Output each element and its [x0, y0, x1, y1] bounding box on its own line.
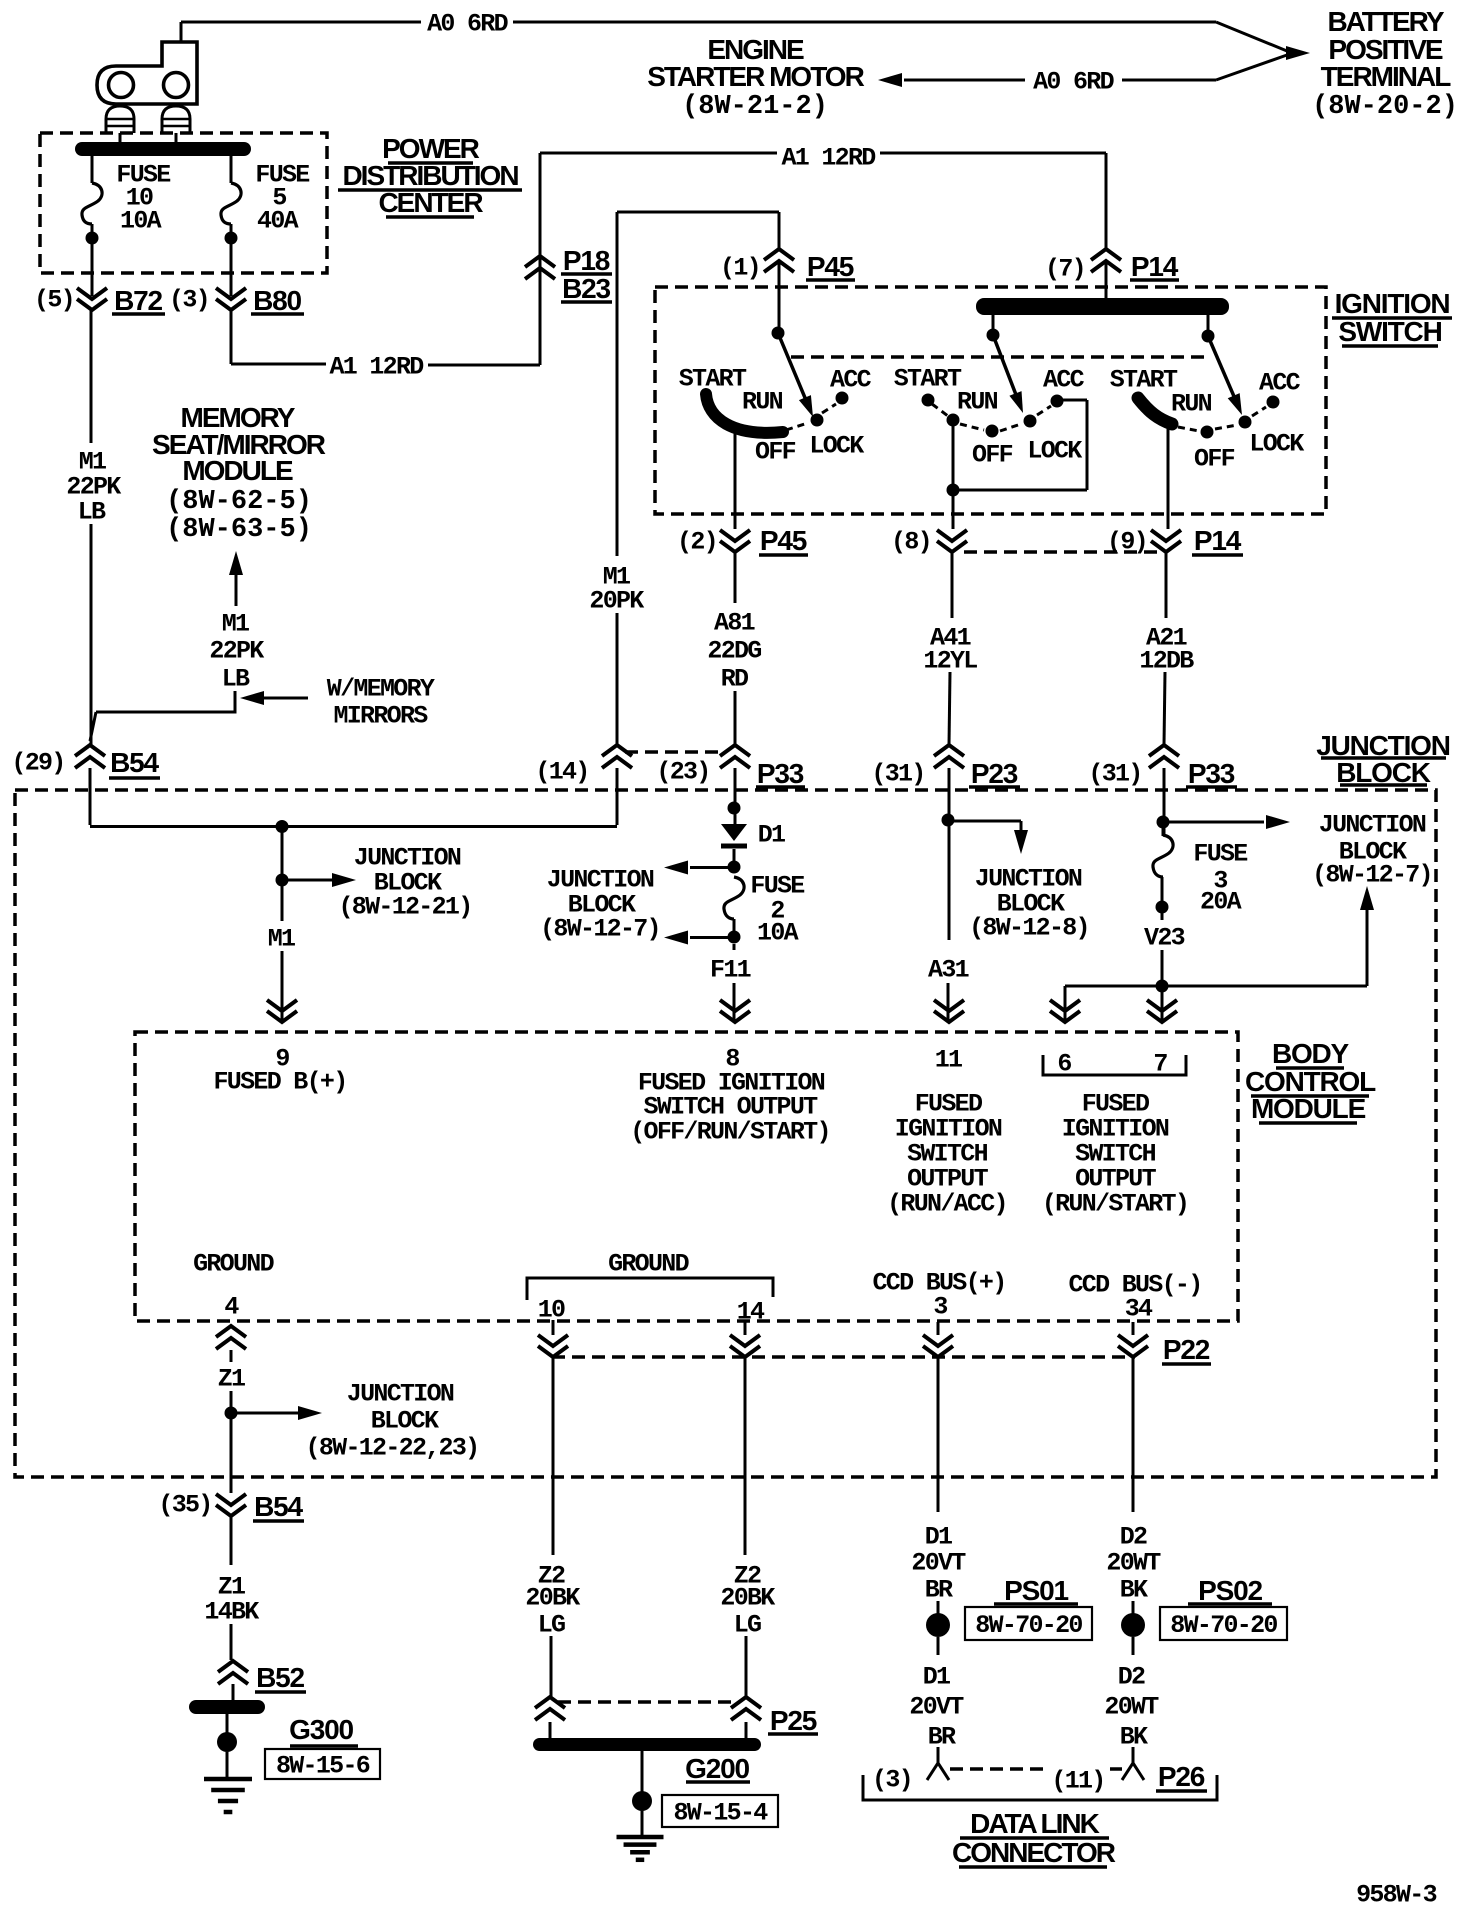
svg-text:ACC: ACC [830, 366, 872, 395]
svg-text:MODULE: MODULE [182, 455, 293, 486]
svg-text:11: 11 [935, 1046, 962, 1075]
svg-text:JUNCTION: JUNCTION [347, 1380, 454, 1409]
svg-text:LG: LG [538, 1611, 565, 1640]
svg-text:(29): (29) [11, 749, 64, 778]
svg-text:34: 34 [1125, 1295, 1153, 1324]
svg-text:P33: P33 [757, 758, 804, 789]
svg-text:(8W-12-7): (8W-12-7) [540, 915, 660, 944]
svg-text:LOCK: LOCK [809, 432, 864, 461]
svg-text:A31: A31 [928, 956, 969, 985]
svg-text:START: START [679, 365, 747, 394]
svg-text:START: START [894, 365, 962, 394]
svg-text:P45: P45 [807, 251, 854, 282]
svg-text:M1: M1 [222, 610, 249, 639]
svg-text:JUNCTION: JUNCTION [1319, 811, 1426, 840]
svg-text:P25: P25 [770, 1705, 817, 1736]
svg-text:(35): (35) [158, 1491, 211, 1520]
svg-text:8W-15-4: 8W-15-4 [673, 1799, 768, 1828]
svg-text:40A: 40A [257, 207, 299, 236]
svg-text:OFF: OFF [755, 438, 796, 467]
svg-text:(3): (3) [169, 286, 209, 315]
svg-text:B52: B52 [256, 1662, 304, 1693]
svg-text:MIRRORS: MIRRORS [333, 702, 428, 731]
svg-text:(9): (9) [1107, 528, 1147, 557]
svg-text:BR: BR [928, 1723, 956, 1752]
svg-text:G300: G300 [289, 1714, 353, 1745]
svg-text:A81: A81 [714, 609, 755, 638]
svg-text:(8W-20-2): (8W-20-2) [1312, 92, 1458, 122]
svg-text:(31): (31) [871, 760, 924, 789]
svg-text:22DG: 22DG [707, 637, 761, 666]
svg-text:B54: B54 [110, 747, 159, 778]
svg-text:TERMINAL: TERMINAL [1321, 61, 1452, 92]
svg-text:20BK: 20BK [525, 1584, 580, 1613]
svg-text:GROUND: GROUND [608, 1250, 690, 1279]
svg-text:B72: B72 [114, 285, 162, 316]
svg-text:ACC: ACC [1259, 369, 1301, 398]
svg-text:(5): (5) [34, 286, 74, 315]
svg-text:LB: LB [78, 498, 106, 527]
svg-text:8W-70-20: 8W-70-20 [1170, 1611, 1277, 1640]
svg-text:P14: P14 [1194, 525, 1242, 556]
svg-text:STARTER MOTOR: STARTER MOTOR [647, 61, 864, 92]
svg-text:(14): (14) [535, 758, 588, 787]
svg-text:BATTERY: BATTERY [1327, 6, 1444, 37]
svg-text:MODULE: MODULE [1251, 1093, 1366, 1124]
svg-text:D2: D2 [1120, 1523, 1147, 1552]
svg-text:IGNITION: IGNITION [1335, 288, 1450, 319]
svg-text:G200: G200 [685, 1753, 749, 1784]
svg-text:F11: F11 [710, 956, 751, 985]
svg-text:8W-70-20: 8W-70-20 [975, 1611, 1082, 1640]
svg-text:BK: BK [1120, 1576, 1148, 1605]
svg-text:P45: P45 [760, 525, 807, 556]
svg-text:RUN: RUN [742, 388, 783, 417]
svg-text:P33: P33 [1188, 758, 1235, 789]
svg-text:12DB: 12DB [1139, 647, 1194, 676]
svg-text:PS01: PS01 [1004, 1575, 1068, 1606]
svg-text:LG: LG [734, 1611, 761, 1640]
svg-text:GROUND: GROUND [193, 1250, 275, 1279]
svg-text:(OFF/RUN/START): (OFF/RUN/START) [630, 1118, 830, 1147]
svg-text:12YL: 12YL [923, 647, 977, 676]
svg-text:(8W-21-2): (8W-21-2) [682, 92, 828, 122]
svg-text:PS02: PS02 [1198, 1575, 1262, 1606]
svg-text:4: 4 [224, 1293, 239, 1322]
svg-text:(11): (11) [1051, 1767, 1104, 1796]
svg-text:P26: P26 [1158, 1761, 1205, 1792]
svg-text:958W-3: 958W-3 [1356, 1881, 1437, 1906]
svg-text:20VT: 20VT [909, 1693, 964, 1722]
svg-text:(RUN/START): (RUN/START) [1042, 1190, 1188, 1219]
svg-text:Z1: Z1 [218, 1365, 245, 1394]
svg-text:(7): (7) [1045, 255, 1085, 284]
svg-text:(23): (23) [656, 758, 709, 787]
svg-text:M1: M1 [268, 925, 295, 954]
svg-text:P22: P22 [1163, 1334, 1210, 1365]
svg-text:V23: V23 [1144, 924, 1185, 953]
svg-text:LOCK: LOCK [1249, 430, 1304, 459]
svg-text:8W-15-6: 8W-15-6 [276, 1752, 370, 1781]
svg-text:P14: P14 [1131, 251, 1179, 282]
svg-text:RUN: RUN [957, 388, 998, 417]
svg-text:10A: 10A [757, 919, 799, 948]
svg-text:D1: D1 [758, 821, 785, 850]
svg-text:3: 3 [933, 1293, 947, 1322]
svg-text:W/MEMORY: W/MEMORY [327, 675, 435, 704]
svg-text:A0 6RD: A0 6RD [1033, 68, 1115, 97]
svg-text:(3): (3) [872, 1766, 912, 1795]
svg-text:B23: B23 [562, 273, 610, 304]
svg-text:A1 12RD: A1 12RD [781, 144, 876, 173]
svg-text:OFF: OFF [1194, 445, 1235, 474]
svg-text:FUSED B(+): FUSED B(+) [213, 1068, 346, 1097]
svg-text:(8W-12-8): (8W-12-8) [969, 914, 1089, 943]
svg-text:OFF: OFF [972, 441, 1013, 470]
svg-text:P23: P23 [971, 758, 1018, 789]
svg-text:BR: BR [925, 1576, 953, 1605]
svg-text:20A: 20A [1200, 888, 1242, 917]
svg-text:20BK: 20BK [720, 1584, 775, 1613]
svg-text:(8W-12-7): (8W-12-7) [1312, 861, 1432, 890]
svg-text:RD: RD [721, 665, 749, 694]
svg-text:LOCK: LOCK [1027, 437, 1082, 466]
svg-text:B54: B54 [254, 1491, 303, 1522]
svg-text:20WT: 20WT [1104, 1693, 1159, 1722]
svg-text:10A: 10A [120, 207, 162, 236]
svg-text:RUN: RUN [1171, 390, 1212, 419]
svg-text:FUSE: FUSE [1193, 840, 1247, 869]
svg-text:20VT: 20VT [911, 1549, 966, 1578]
svg-text:(8W-62-5): (8W-62-5) [166, 487, 312, 517]
svg-text:P18: P18 [563, 245, 610, 276]
svg-text:(31): (31) [1088, 760, 1141, 789]
svg-text:ACC: ACC [1043, 366, 1085, 395]
svg-text:SWITCH: SWITCH [1338, 316, 1441, 347]
svg-text:14BK: 14BK [204, 1598, 259, 1627]
svg-text:(8W-12-21): (8W-12-21) [338, 893, 471, 922]
svg-text:20WT: 20WT [1106, 1549, 1161, 1578]
svg-text:CENTER: CENTER [378, 187, 483, 218]
svg-text:B80: B80 [253, 285, 301, 316]
svg-text:(1): (1) [720, 254, 760, 283]
svg-text:(8): (8) [891, 528, 931, 557]
svg-text:(8W-12-22,23): (8W-12-22,23) [306, 1434, 479, 1463]
svg-text:START: START [1110, 366, 1178, 395]
svg-text:(8W-63-5): (8W-63-5) [166, 515, 312, 545]
svg-text:(2): (2) [677, 528, 717, 557]
svg-text:22PK: 22PK [209, 637, 264, 666]
svg-text:A1 12RD: A1 12RD [329, 353, 424, 382]
svg-text:D1: D1 [925, 1523, 952, 1552]
svg-text:CONNECTOR: CONNECTOR [952, 1837, 1116, 1868]
svg-text:10: 10 [538, 1296, 565, 1325]
svg-text:(RUN/ACC): (RUN/ACC) [887, 1190, 1007, 1219]
svg-text:BLOCK: BLOCK [371, 1407, 439, 1436]
svg-text:LB: LB [222, 665, 250, 694]
svg-text:DATA LINK: DATA LINK [970, 1808, 1099, 1839]
svg-text:D1: D1 [923, 1663, 950, 1692]
svg-text:BODY: BODY [1272, 1038, 1350, 1069]
svg-text:D2: D2 [1118, 1663, 1145, 1692]
svg-text:A0 6RD: A0 6RD [427, 10, 509, 39]
svg-text:20PK: 20PK [589, 587, 644, 616]
svg-text:14: 14 [737, 1298, 765, 1327]
